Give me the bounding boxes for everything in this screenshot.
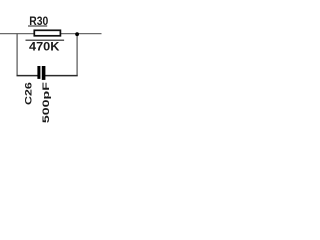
node junction dot — [75, 32, 79, 36]
wire bottom right segment — [45, 75, 78, 77]
svg-text:500pF: 500pF — [41, 81, 51, 123]
capacitor C26 right plate — [42, 66, 46, 80]
capacitor C26 left plate — [37, 66, 40, 79]
wire bottom left segment — [17, 75, 39, 77]
background — [0, 0, 119, 151]
wire left vertical drop — [16, 34, 18, 76]
wire right vertical drop — [76, 34, 78, 75]
wire main horizontal net — [0, 33, 102, 35]
svg-text:470K: 470K — [29, 39, 59, 53]
svg-text:C26: C26 — [23, 82, 33, 105]
overline of 470K — [26, 39, 65, 41]
underline of R30 — [28, 25, 47, 27]
resistor R30 body — [34, 30, 60, 36]
